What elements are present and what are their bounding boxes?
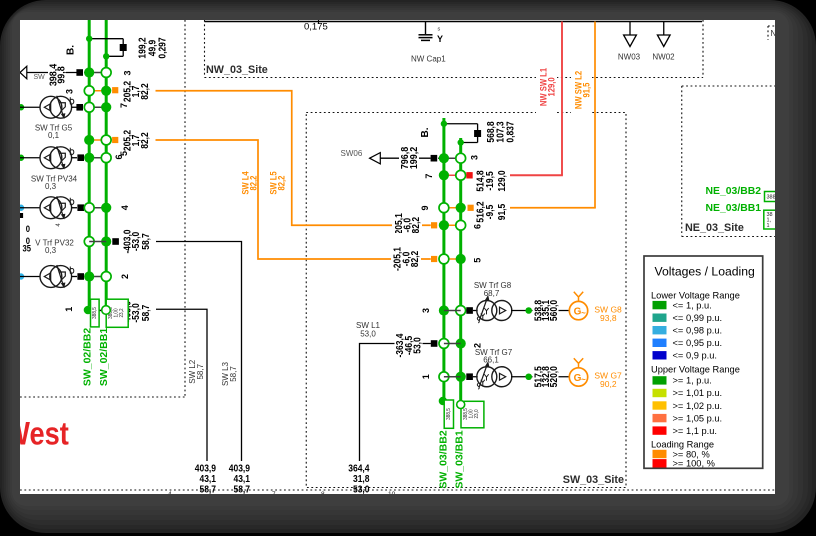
svg-text:403,9: 403,9: [195, 463, 216, 474]
svg-text:31,8: 31,8: [353, 473, 370, 484]
svg-text:23,2: 23,2: [119, 308, 125, 317]
svg-text:1: 1: [767, 223, 770, 229]
svg-text:>= 1,1 p.u.: >= 1,1 p.u.: [673, 426, 717, 436]
svg-text:Loading Range: Loading Range: [651, 440, 714, 450]
svg-text:NE_03/BB1: NE_03/BB1: [706, 203, 762, 214]
svg-text:>= 1,02 p.u.: >= 1,02 p.u.: [673, 401, 723, 411]
top busbar wire NW: [205, 21, 703, 23]
svg-text:>= 1,05 p.u.: >= 1,05 p.u.: [673, 413, 723, 423]
svg-text:93,8: 93,8: [600, 313, 617, 323]
busbar end caps SW_02: [84, 306, 93, 315]
svg-text:s: s: [438, 27, 441, 33]
svg-text:82,2: 82,2: [140, 132, 151, 149]
svg-text:Lower Voltage Range: Lower Voltage Range: [651, 291, 740, 301]
svg-text:43,1: 43,1: [233, 473, 250, 484]
svg-text:58,7: 58,7: [141, 305, 152, 322]
line SW L3 (black): [156, 242, 242, 462]
svg-text:1: 1: [64, 307, 74, 312]
svg-text:2: 2: [120, 274, 130, 279]
row SW L4 y=259: [444, 258, 461, 260]
svg-text:1: 1: [421, 374, 431, 379]
svg-text:82,2: 82,2: [140, 83, 151, 100]
svg-text:<= 0,95 p.u.: <= 0,95 p.u.: [673, 338, 723, 348]
row SW06 y=158 switches: [431, 155, 438, 162]
busbar result box NE_03/BB2 (cut): [765, 192, 779, 202]
line SW L5 (orange) from SW_02 to SW_03: [156, 91, 431, 226]
transformer SW Trf G5: [18, 104, 24, 110]
busbar result box NE_03/BB1 (cut): [764, 210, 779, 229]
svg-text:58,7: 58,7: [229, 366, 238, 382]
svg-text:0: 0: [26, 223, 31, 234]
svg-text:0,297: 0,297: [157, 37, 168, 58]
load branch row y=123.75 with load symbol: [444, 123, 478, 125]
row SW L4 feeder y=140: [89, 139, 106, 141]
svg-text:560,0: 560,0: [549, 300, 560, 321]
line NW SW L1 (red): [561, 22, 563, 176]
SW_02_Site dashed border: [184, 20, 186, 397]
svg-text:53,0: 53,0: [360, 330, 376, 339]
svg-text:SW_03/BB2: SW_03/BB2: [437, 430, 449, 489]
svg-text:0,837: 0,837: [505, 121, 516, 142]
svg-text:~: ~: [581, 375, 586, 384]
svg-text:7: 7: [424, 174, 434, 179]
svg-text:<= 0,98 p.u.: <= 0,98 p.u.: [673, 326, 723, 336]
svg-text:<= 1, p.u.: <= 1, p.u.: [673, 300, 712, 310]
busbar SW_03/BB2: [442, 118, 445, 399]
svg-text:NW_03_Site: NW_03_Site: [206, 64, 268, 76]
svg-text:82,2: 82,2: [276, 175, 287, 190]
legend swatch #c6e000: [653, 389, 667, 397]
result label 538,8 135,1 560,0: [533, 297, 559, 324]
svg-text:99,8: 99,8: [56, 66, 68, 84]
svg-text:-9,5: -9,5: [485, 205, 496, 220]
svg-text:364,4: 364,4: [348, 463, 370, 474]
row SW L5 feeder y=90.75: [89, 90, 106, 92]
svg-text:23,0: 23,0: [474, 409, 480, 418]
svg-text:35: 35: [22, 243, 31, 254]
svg-text:82,2: 82,2: [410, 251, 421, 268]
row SW L3 feeder y=241.5: [84, 237, 94, 247]
row SW line y=72.5 switches: [76, 69, 83, 76]
busbar result box SW_02/BB2: [91, 299, 100, 327]
svg-text:0,1: 0,1: [48, 131, 60, 140]
cut-off result text at left edge: [18, 213, 23, 218]
svg-text:3: 3: [421, 308, 431, 313]
legend swatch #35aee0: [653, 326, 667, 334]
generator SW G7 symbol: [569, 368, 587, 386]
svg-text:129,0: 129,0: [497, 170, 508, 191]
line NW SW L2 (orange): [594, 22, 596, 208]
legend box Voltages / Loading: [644, 256, 763, 468]
svg-text:58,7: 58,7: [233, 484, 250, 495]
svg-text:<= 0,99 p.u.: <= 0,99 p.u.: [673, 313, 723, 323]
edge connector NW02: [663, 22, 665, 36]
transformer row 2 (PV32): [18, 273, 24, 279]
busbar result box SW_03/BB2: [439, 397, 447, 405]
row SW L5 y=225.25: [444, 224, 461, 226]
svg-text:58,7: 58,7: [199, 484, 216, 495]
result label line SW L5 at SW_03 end: [392, 199, 422, 252]
svg-text:90,2: 90,2: [600, 379, 617, 389]
svg-text:~: ~: [581, 309, 586, 318]
legend swatch #0000cc: [653, 351, 667, 359]
svg-text:NE_03/BB2: NE_03/BB2: [706, 186, 762, 197]
svg-text:Y: Y: [437, 34, 443, 44]
svg-text:388,5: 388,5: [92, 307, 98, 319]
svg-text:91,5: 91,5: [581, 82, 592, 97]
svg-text:3: 3: [470, 155, 480, 160]
svg-text:58,7: 58,7: [141, 233, 152, 250]
svg-text:SW_03_Site: SW_03_Site: [563, 474, 624, 486]
small dashed box top right with N label: [767, 26, 769, 40]
edge connector NW03: [629, 22, 631, 36]
edge connector SW incoming line: [20, 66, 27, 79]
svg-text:68,7: 68,7: [484, 289, 500, 298]
svg-text:>= 100, %: >= 100, %: [673, 459, 715, 469]
svg-text:6: 6: [473, 224, 483, 229]
legend swatch #00a000: [653, 301, 667, 309]
svg-text:B.: B.: [420, 127, 431, 137]
svg-text:7: 7: [119, 103, 129, 108]
busbar SW_02/BB2: [88, 20, 91, 306]
result label line SW L4 at SW_03 end: [391, 233, 421, 285]
svg-text:SW06: SW06: [341, 149, 363, 158]
legend swatch #ff0000: [653, 426, 667, 434]
svg-text:403,9: 403,9: [229, 463, 250, 474]
svg-text:388,5: 388,5: [446, 408, 452, 420]
svg-text:0,3: 0,3: [45, 182, 57, 191]
svg-text:3: 3: [65, 89, 75, 94]
legend swatch #1fa58c: [653, 314, 667, 322]
NW_03_Site dashed border: [204, 20, 206, 78]
line SW L1 (black): [360, 344, 431, 462]
svg-text:B.: B.: [66, 45, 77, 55]
busbar result box SW_02/BB1: [106, 299, 128, 327]
svg-text:6: 6: [114, 154, 124, 159]
result label 517,5 132,8 520,0: [533, 363, 559, 390]
svg-text:>= 1,01 p.u.: >= 1,01 p.u.: [673, 388, 723, 398]
row NW SW L2 y=207.75 (orange): [444, 207, 461, 209]
svg-text:>= 1, p.u.: >= 1, p.u.: [673, 376, 712, 386]
svg-text:82,2: 82,2: [411, 217, 422, 234]
svg-text:520,0: 520,0: [549, 366, 560, 387]
svg-text:4: 4: [120, 205, 130, 210]
svg-text:0,3: 0,3: [45, 246, 57, 255]
svg-text:199,2: 199,2: [409, 146, 421, 169]
svg-text:129,0: 129,0: [546, 77, 557, 96]
result label 796,8 199,2: [399, 143, 419, 174]
svg-text:SW: SW: [34, 74, 46, 81]
row NW SW L1 y=175.25 (red): [444, 174, 461, 176]
legend swatch #ff7040: [653, 414, 667, 422]
svg-text:NE_03_Site: NE_03_Site: [685, 222, 744, 234]
legend swatch #ff8c00: [653, 450, 667, 458]
legend swatch #ffc000: [653, 401, 667, 409]
svg-text:91,5: 91,5: [497, 204, 508, 221]
busbar result box SW_03/BB1: [461, 401, 484, 428]
svg-text:53,0: 53,0: [412, 337, 423, 354]
svg-text:43,1: 43,1: [199, 473, 216, 484]
svg-text:SW_03/BB1: SW_03/BB1: [454, 430, 466, 489]
page bottom dashed border with ruler digits: [20, 489, 775, 491]
svg-text:53,0: 53,0: [353, 484, 370, 495]
SW_03_Site dashed border: [306, 113, 626, 488]
transformer row 4 (PV): [18, 205, 24, 211]
svg-text:SW_02/BB2: SW_02/BB2: [82, 328, 94, 387]
load branch row y=39 with load symbol: [89, 38, 123, 40]
label NW SW L2 91,5: [571, 61, 592, 119]
svg-text:Upper Voltage Range: Upper Voltage Range: [651, 364, 740, 374]
svg-text:0,175: 0,175: [304, 22, 328, 33]
svg-text:5: 5: [473, 258, 483, 263]
transformer SW Trf PV34: [18, 155, 24, 161]
NE_03_Site dashed border: [681, 86, 683, 237]
svg-text:388: 388: [767, 195, 776, 201]
svg-text:58,7: 58,7: [196, 363, 205, 379]
result label -363,4 -46,5 53,0: [395, 331, 423, 360]
svg-text:66,1: 66,1: [483, 356, 499, 365]
result label 398,4 99,8: [48, 57, 66, 94]
row SW L1 y=343.5: [439, 339, 449, 349]
capacitor NW Cap1: [425, 22, 427, 35]
svg-text:NW02: NW02: [652, 53, 675, 62]
svg-text:9: 9: [420, 205, 430, 210]
busbar SW_02/BB1: [105, 20, 108, 306]
line SW L2 (black): [156, 309, 207, 461]
svg-text:<= 0,9 p.u.: <= 0,9 p.u.: [673, 351, 717, 361]
legend swatch #1f7fff: [653, 339, 667, 347]
line SW L4 (orange): [156, 140, 431, 259]
busbar SW_03/BB1: [459, 138, 462, 401]
svg-text:NW Cap1: NW Cap1: [411, 55, 446, 64]
label NW SW L1 129,0: [536, 58, 557, 116]
svg-text:82,2: 82,2: [248, 175, 259, 190]
svg-text:3: 3: [122, 70, 132, 75]
legend swatch #00a000: [653, 376, 667, 384]
svg-text:-19,5: -19,5: [485, 171, 496, 190]
svg-text:NW03: NW03: [618, 53, 641, 62]
generator SW G8 symbol: [569, 301, 587, 319]
legend swatch #ff0000: [653, 459, 667, 467]
svg-text:Voltages / Loading: Voltages / Loading: [655, 265, 755, 279]
svg-text:SW_02/BB1: SW_02/BB1: [98, 328, 110, 387]
